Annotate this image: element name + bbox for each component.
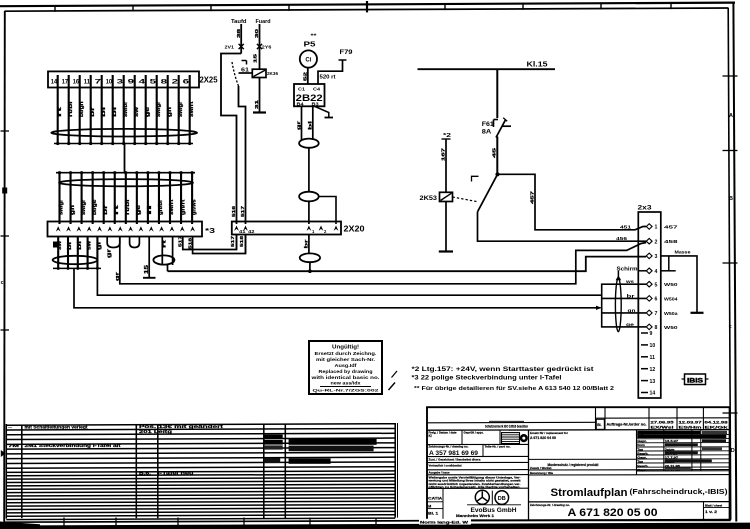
svg-text:W50a: W50a: [664, 311, 678, 317]
svg-text:52: 52: [303, 71, 308, 81]
2x3 pin 13 (unused): [641, 379, 655, 385]
svg-text:16: 16: [73, 79, 80, 86]
svg-text:Auftrags-Nr./order no.: Auftrags-Nr./order no.: [607, 423, 647, 427]
svg-text:Ausg.Idf: Ausg.Idf: [335, 363, 358, 368]
svg-text:4: 4: [655, 269, 658, 275]
wires from *3 pins 11-12 through small sleeve: [161, 237, 172, 266]
svg-text:IBIS: IBIS: [687, 378, 703, 385]
svg-text:ws: ws: [625, 280, 635, 285]
svg-text:sw/gr: sw/gr: [178, 101, 184, 117]
svg-text:gn: gn: [167, 107, 173, 117]
svg-text:167: 167: [441, 147, 447, 161]
svg-text:1: 1: [655, 225, 658, 231]
fuse F61 8A: [482, 118, 511, 138]
svg-text:517: 517: [230, 235, 235, 247]
cable bundle sleeve (oval) above connector *3: [59, 179, 193, 186]
relay coil 2K36: [252, 69, 278, 77]
long net wire from left splice (x74): [74, 268, 601, 307]
svg-text:Ersetzt durch Zeichng.: Ersetzt durch Zeichng.: [315, 351, 377, 356]
IBIS reference tag: [682, 374, 709, 385]
terminal X node 2Y6: [257, 44, 272, 51]
switch blade (2K53 contact): [478, 174, 498, 212]
svg-text:Ki: Ki: [429, 434, 432, 438]
svg-text:2x3: 2x3: [638, 205, 652, 212]
svg-text:12: 12: [650, 367, 656, 373]
svg-text:Gepr.: Gepr.: [637, 468, 647, 472]
2x3 pin 2: [646, 238, 678, 245]
svg-text:11: 11: [84, 79, 91, 86]
wire 456 from switch blade to 2x3 pin 2: [478, 212, 647, 241]
svg-text:D: D: [731, 448, 735, 454]
svg-text:Geprüft / appr.: Geprüft / appr.: [464, 431, 484, 435]
svg-text:A 671 820 04 00: A 671 820 04 00: [530, 436, 556, 440]
svg-text:457: 457: [530, 190, 536, 204]
svg-text:*2: *2: [443, 133, 451, 139]
wire link between splice buses: [124, 144, 126, 173]
svg-text:with identical basic no.: with identical basic no.: [310, 375, 379, 380]
svg-text:2X20: 2X20: [344, 225, 366, 234]
2x3 pin 11 (unused): [641, 355, 655, 361]
svg-text:mit gleicher Sach-Nr.: mit gleicher Sach-Nr.: [316, 357, 375, 362]
svg-text:Zeichnungs-Nr. / drawing no.: Zeichnungs-Nr. / drawing no.: [530, 503, 570, 507]
svg-text:ge: ge: [626, 323, 634, 328]
svg-text:gn: gn: [628, 309, 636, 314]
wire br below 2X20 centre pin: [304, 235, 310, 254]
svg-text:17: 17: [62, 79, 69, 86]
svg-text:7: 7: [95, 79, 102, 86]
svg-text:A: A: [729, 113, 733, 119]
svg-text:517: 517: [240, 205, 245, 217]
svg-text:Ausgabe / issue: Ausgabe / issue: [429, 470, 450, 474]
junction node of switch 2S?: [495, 172, 499, 176]
svg-text:7: 7: [655, 311, 658, 317]
svg-text:ES/Hm: ES/Hm: [679, 426, 702, 430]
wire from *3 pin 10 to terminating stub: [143, 237, 156, 278]
svg-text:br: br: [627, 293, 635, 299]
svg-text:sw: sw: [87, 240, 93, 250]
svg-text:Teile-Nr. / part no.: Teile-Nr. / part no.: [485, 445, 511, 449]
wire Masse from 2x3 pin 3 to ground: [661, 249, 697, 312]
svg-text:Ungültig!: Ungültig!: [332, 345, 359, 351]
cable bundle sleeve (oval) of 2X25 harness: [51, 129, 197, 137]
svg-text:14: 14: [650, 391, 656, 397]
svg-text:*3: *3: [205, 228, 215, 235]
svg-text:c: c: [1, 280, 4, 286]
svg-text:516: 516: [231, 205, 236, 217]
svg-text:B.6.: B.6.: [139, 471, 151, 476]
svg-text:F61: F61: [482, 121, 495, 128]
svg-text:5: 5: [150, 79, 157, 86]
ground bar under 2K53: [439, 250, 453, 252]
svg-text:sw/gr: sw/gr: [59, 199, 65, 215]
wire 520 rt from F79 to 2B22 pin C4: [318, 60, 347, 84]
antenna stub from 2B22 pin B3: [315, 106, 334, 117]
wire from switch blade down to 2X20: [239, 86, 246, 224]
wires from *3 pins 1-5 down through bundle to splice: [53, 237, 102, 269]
svg-text:2: 2: [172, 79, 179, 86]
wire labels 516/517 above 2X20: [231, 205, 245, 217]
control unit 2B22: [294, 84, 325, 107]
svg-text:W504: W504: [664, 296, 678, 302]
2x3 pin 10 (unused): [641, 343, 655, 349]
svg-text:15: 15: [144, 265, 150, 274]
svg-text:42: 42: [248, 229, 255, 234]
2x3 pin 7: [646, 310, 678, 317]
svg-text:15: 15: [253, 53, 259, 63]
svg-text:rt/bl: rt/bl: [68, 101, 74, 117]
svg-text:br: br: [304, 239, 310, 248]
2x3 pin 5: [646, 281, 678, 288]
svg-text:12.03.97: 12.03.97: [679, 420, 702, 424]
svg-text:gn/br: gn/br: [158, 198, 164, 215]
svg-text:Bl. 1: Bl. 1: [428, 512, 438, 516]
svg-text:bl/gn: bl/gn: [79, 102, 85, 118]
long net wire 510 to 2x3 pin 3: [168, 257, 647, 272]
connector *3 (22-pole under I-Tafel): [48, 222, 216, 237]
svg-text:2X25: 2X25: [200, 75, 218, 84]
svg-text:sw: sw: [134, 106, 140, 117]
svg-text:rt: rt: [161, 239, 166, 248]
wire *2 net 167 through 2K53 to ground: [441, 133, 451, 252]
svg-text:mit Schaltleitungen verlegt: mit Schaltleitungen verlegt: [25, 424, 89, 429]
svg-text:38: 38: [236, 28, 242, 38]
cable sleeve oval below *3 right group: [153, 255, 174, 264]
wire 518 below 2X20 left pins: [239, 235, 246, 254]
wire 517 from *3 pin 13 to 2X20: [178, 235, 237, 250]
cable sleeve oval below 2X20: [300, 253, 320, 262]
svg-text:gr: gr: [115, 272, 121, 281]
svg-text:31: 31: [254, 99, 260, 109]
wire A from Taufd terminal down to 2X20: [221, 24, 242, 224]
svg-text:Freig. / Datum / date: Freig. / Datum / date: [429, 431, 457, 435]
svg-text:1 v. 2: 1 v. 2: [705, 510, 717, 514]
svg-text:Zust. / Gezeichnet / Bearbeite: Zust. / Gezeichnet / Bearbeitet divers: [429, 458, 481, 462]
relay coil 2K53: [420, 192, 453, 202]
svg-text:9: 9: [128, 79, 135, 86]
wire 31 from 2K36 to ground: [254, 78, 260, 113]
2x3 pin 14 (unused): [641, 391, 655, 397]
splice bus below *3 left group: [53, 267, 101, 270]
svg-text:8A: 8A: [482, 129, 492, 136]
svg-text:EvoBus GmbH: EvoBus GmbH: [471, 508, 517, 514]
connector 2x3: [638, 205, 661, 399]
svg-text:Stromlaufplan: Stromlaufplan: [551, 487, 628, 499]
svg-text:457: 457: [664, 225, 678, 231]
svg-text:bl: bl: [308, 121, 314, 130]
svg-text:*3 22 polige Steckverbindung u: *3 22 polige Steckverbindung unter I-Taf…: [412, 375, 562, 382]
svg-text:2M1 Steckverbindung I-Tafel a: 2M1 Steckverbindung I-Tafel alt: [25, 443, 122, 448]
2x3 pin 6: [646, 296, 678, 303]
svg-text:sw/gr: sw/gr: [81, 199, 87, 215]
svg-text:27.06.95: 27.06.95: [651, 420, 674, 424]
svg-text:6: 6: [183, 79, 190, 86]
svg-text:EK/Gk: EK/Gk: [705, 426, 728, 430]
svg-text:sw/gr: sw/gr: [156, 101, 162, 117]
svg-text:c: c: [729, 324, 732, 330]
svg-text:Kl.15: Kl.15: [527, 62, 548, 69]
wire 52 from P5 to 2B22 pin C1: [303, 68, 308, 84]
svg-text:W50: W50: [664, 325, 678, 331]
wire loop joining *3 pins 6 and 7: [107, 237, 120, 248]
svg-text:Ersatz für / replacement for: Ersatz für / replacement for: [530, 431, 569, 435]
junction node on net 510: [308, 269, 312, 273]
shielded wire from 2B22 down to 2X20: [308, 148, 310, 192]
svg-text:Blatt / sheet: Blatt / sheet: [705, 503, 722, 507]
svg-text:9: 9: [650, 331, 653, 337]
svg-text:517: 517: [178, 235, 183, 247]
svg-text:45: 45: [492, 147, 498, 158]
svg-text:bl/ge: bl/ge: [92, 200, 98, 216]
mechanical link 2K53 to switch (dashed): [453, 197, 477, 202]
svg-text:sw/br: sw/br: [123, 101, 129, 117]
svg-text:rt/bl: rt/bl: [125, 199, 131, 215]
svg-text:br: br: [103, 203, 109, 215]
wire 451 from fuse to node: [492, 137, 498, 175]
svg-text:7M: 7M: [8, 443, 20, 448]
svg-text:F79: F79: [340, 49, 353, 56]
svg-text:Fuard: Fuard: [256, 19, 271, 25]
wire B from Fuard terminal down to relay 2K36: [253, 24, 261, 69]
svg-text:Replaced by drawing: Replaced by drawing: [319, 369, 373, 374]
svg-text:Zeichnungs-Nr. / drawing no.: Zeichnungs-Nr. / drawing no.: [429, 445, 469, 449]
wire from sleeve to long net run: [309, 262, 311, 271]
svg-text:gr: gr: [296, 121, 302, 130]
svg-text:2V1: 2V1: [225, 45, 235, 51]
svg-text:gr: gr: [96, 241, 102, 250]
svg-text:458: 458: [664, 239, 678, 245]
2x3 pin 12 (unused): [641, 367, 655, 373]
svg-text:(Fahrscheindruck,-IBIS): (Fahrscheindruck,-IBIS): [630, 487, 729, 496]
svg-text:Musterschutz / registered prod: Musterschutz / registered produkt: [548, 463, 600, 467]
svg-text:new ass/idx: new ass/idx: [331, 381, 362, 386]
2x3 pin 3: [646, 253, 657, 260]
ground bar (Masse): [691, 312, 704, 314]
svg-text:B4: B4: [297, 102, 305, 107]
wire 517 below 2X20 left pins: [230, 235, 237, 250]
svg-text:Mannheim Werk 1: Mannheim Werk 1: [456, 514, 494, 518]
wire gr from 2B22 pin B4: [296, 106, 302, 140]
shielded cable box (ws/br/gn/ge group): [602, 284, 647, 327]
long net wire from left splice (x97): [97, 268, 601, 295]
stamp box Ungueltig: [309, 341, 382, 394]
terminal X node 2V1: [225, 44, 244, 51]
svg-text:10: 10: [106, 79, 113, 86]
svg-text:30: 30: [254, 28, 260, 38]
svg-text:456: 456: [616, 236, 628, 241]
svg-text:CATIA: CATIA: [428, 496, 442, 501]
svg-text:br: br: [90, 105, 96, 117]
svg-text:2: 2: [655, 239, 658, 245]
svg-text:2Y6: 2Y6: [262, 45, 272, 51]
svg-text:M: M: [428, 504, 431, 508]
svg-text:518: 518: [187, 237, 192, 249]
svg-text:I-Tafel neu: I-Tafel neu: [158, 471, 195, 476]
svg-text:rt: rt: [114, 205, 120, 215]
second splice bus node: [56, 171, 195, 174]
svg-text:2K36: 2K36: [267, 71, 278, 77]
wire harness from bus down to connector *3: [59, 173, 198, 224]
splice bus node under 2X25 harness: [54, 142, 193, 145]
svg-text:—: —: [8, 424, 12, 429]
cable sleeve oval above 2X20: [299, 192, 319, 202]
svg-text:3: 3: [117, 79, 124, 86]
svg-text:Benennung / title: Benennung / title: [530, 471, 553, 475]
svg-text:li: li: [147, 203, 153, 215]
svg-text:ge: ge: [145, 107, 151, 117]
bus Kl.15: [418, 62, 556, 70]
manual actuator mark: [472, 176, 479, 181]
svg-text:Vertraulich / confidential: Vertraulich / confidential: [429, 464, 462, 468]
svg-text:3: 3: [655, 254, 658, 260]
svg-text:2K53: 2K53: [420, 196, 438, 202]
long net wire to 2x3 pin 2 (from *3 pin 7): [115, 237, 647, 284]
svg-text:sw/rt: sw/rt: [189, 101, 195, 117]
svg-text:Ci: Ci: [305, 58, 311, 64]
connector 2X25: [48, 71, 218, 87]
svg-text:Taufd: Taufd: [231, 19, 247, 25]
svg-text:41: 41: [239, 229, 246, 234]
cable shield symbol (vertical sleeve): [615, 278, 621, 332]
svg-text:DB: DB: [498, 496, 506, 502]
svg-text:W50: W50: [664, 282, 678, 288]
wire harness from 2X25 pins down to splice bus: [57, 75, 195, 144]
svg-text:P5: P5: [304, 42, 316, 49]
svg-text:5: 5: [655, 282, 658, 288]
cable sleeve oval below 2B22: [299, 139, 319, 148]
svg-text:Schutzvermerk ISO 16016 beacht: Schutzvermerk ISO 16016 beachten: [485, 425, 528, 429]
svg-text:8: 8: [655, 325, 658, 331]
svg-text:4: 4: [139, 79, 146, 86]
switch contact S2 (blade): [232, 61, 252, 87]
2x3 pin 9 (unused): [641, 331, 653, 337]
connector 2X20: [232, 222, 365, 235]
svg-text:gn/rt: gn/rt: [180, 199, 186, 215]
check mark: [389, 383, 396, 391]
svg-text:gn: gn: [70, 205, 76, 215]
svg-text:04.12.98: 04.12.98: [705, 420, 728, 424]
svg-text:br: br: [67, 241, 73, 250]
wire 518 from *3 pin 14 to 2X20: [187, 235, 245, 254]
2x3 pin 8: [646, 324, 678, 331]
svg-text:201 Leitg: 201 Leitg: [139, 429, 173, 434]
wire 457 from switch node to 2x3 pin 1: [497, 174, 646, 230]
svg-text:bl: bl: [112, 106, 118, 117]
svg-text:rt: rt: [57, 107, 63, 117]
svg-text:Qu-RL-Nr.7/ZGS:002: Qu-RL-Nr.7/ZGS:002: [313, 389, 379, 393]
wire from Kl.15 to fuse F61: [496, 69, 498, 118]
svg-text:6: 6: [655, 297, 658, 303]
svg-text:13: 13: [650, 379, 656, 385]
svg-text:11: 11: [650, 355, 656, 361]
svg-text:A 671 820 05 00: A 671 820 05 00: [568, 507, 658, 519]
svg-text:*2 Ltg.157: +24V, wenn Startta: *2 Ltg.157: +24V, wenn Starttaster gedrü…: [412, 366, 594, 373]
wire bl from 2B22 pin B3: [308, 106, 314, 140]
svg-text:** Für übrige detailieren für: ** Für übrige detailieren für SV.siehe A…: [414, 386, 614, 392]
svg-text:Zusatz / Werkst.: Zusatz / Werkst.: [530, 466, 552, 470]
svg-text:EX/Wsl: EX/Wsl: [651, 426, 674, 430]
wire loop from sleeve to 2X20 pin 3: [319, 197, 336, 225]
ground bar under 2K36: [253, 111, 266, 113]
Schirm wire to 2x3 pin 4: [616, 266, 647, 280]
wire into 2X20 pin 1: [308, 201, 310, 224]
wire net 510: sleeve to long run: [167, 265, 169, 271]
svg-text:518: 518: [239, 235, 244, 247]
wire loop joining *3 pins 8 and 9: [130, 237, 140, 248]
svg-text:Bl.: Bl.: [597, 423, 601, 427]
cable sleeve oval below *3 left group: [53, 256, 98, 264]
svg-text:sw/rt: sw/rt: [169, 199, 175, 215]
svg-text:C4: C4: [313, 87, 321, 92]
svg-text:Masse: Masse: [675, 249, 692, 254]
svg-text:451: 451: [620, 224, 632, 229]
svg-text:ge: ge: [136, 205, 142, 215]
svg-text:14: 14: [51, 79, 58, 86]
gauge P5 (indicator): [300, 34, 318, 68]
svg-text:520 rt: 520 rt: [320, 74, 336, 80]
svg-text:bl: bl: [77, 240, 83, 250]
svg-text:gn/ws: gn/ws: [191, 200, 197, 216]
arrow head on net at shield box: [596, 306, 602, 310]
2x3 pin 4: [646, 268, 657, 275]
svg-text:B: B: [729, 196, 733, 202]
2x3 pin 1: [646, 224, 678, 231]
svg-text:8: 8: [161, 79, 168, 86]
svg-text:Schirm: Schirm: [617, 266, 639, 272]
svg-text:A 357 981 69 69: A 357 981 69 69: [429, 450, 478, 457]
svg-text:Norm lang-Ed. W: Norm lang-Ed. W: [420, 520, 469, 524]
svg-text:C1: C1: [298, 87, 306, 92]
svg-text:gr: gr: [107, 249, 113, 258]
svg-text:10: 10: [650, 343, 656, 349]
svg-text:bl: bl: [101, 106, 107, 117]
